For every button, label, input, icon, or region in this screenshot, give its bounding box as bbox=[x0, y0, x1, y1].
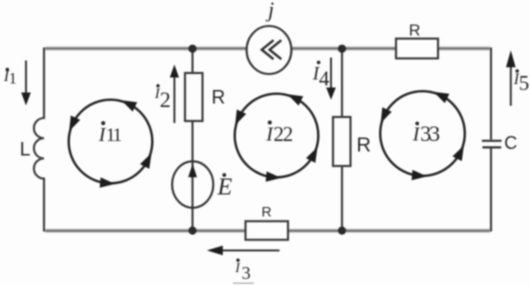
svg-text:5: 5 bbox=[519, 71, 530, 95]
svg-text:3: 3 bbox=[242, 263, 251, 283]
svg-text:R: R bbox=[409, 22, 421, 39]
svg-text:R: R bbox=[212, 87, 226, 108]
svg-text:E: E bbox=[217, 174, 233, 200]
svg-text:4: 4 bbox=[319, 67, 330, 91]
svg-text:2: 2 bbox=[160, 87, 171, 112]
svg-text:R: R bbox=[357, 134, 371, 156]
svg-text:C: C bbox=[504, 133, 517, 153]
svg-text:22: 22 bbox=[274, 122, 293, 146]
svg-text:1: 1 bbox=[9, 71, 17, 88]
svg-text:L: L bbox=[20, 139, 31, 160]
svg-text:33: 33 bbox=[420, 121, 440, 146]
svg-text:11: 11 bbox=[106, 125, 122, 146]
svg-text:R: R bbox=[262, 203, 272, 219]
